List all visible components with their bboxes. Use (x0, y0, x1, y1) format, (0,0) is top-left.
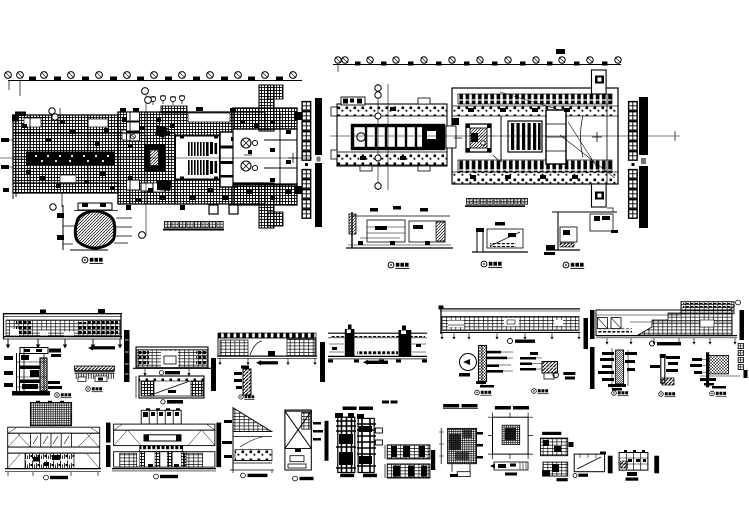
elevation E1 with tower (5, 401, 101, 480)
plan B escalator ladder (353, 124, 444, 150)
D1 name label (88, 346, 115, 351)
plan A left rooms column (127, 112, 154, 191)
plan A right bottom hatch band (233, 184, 297, 205)
vertical caption bar V1 (124, 330, 130, 382)
detail B1 label (388, 262, 409, 268)
detail B1 section (346, 206, 453, 248)
plan A top-left corner steps (12, 112, 26, 122)
detail F5 strip (490, 462, 528, 476)
plan B grid bubbles row (335, 57, 621, 63)
plan B central axis line (500, 116, 502, 162)
plan B right stair arm top (592, 70, 607, 94)
plan A left wing hatch (13, 115, 118, 199)
plan B centerline (330, 131, 680, 141)
plan A interior partition walls (13, 112, 297, 204)
plan B diagonal leaders (500, 92, 615, 178)
plan B left wing outline (331, 98, 447, 171)
elevation M1 hall section (328, 325, 427, 365)
plan A grid bubbles row (5, 72, 297, 79)
plan A dimension tick blocks (29, 77, 283, 82)
plan B tall shaft (546, 110, 566, 164)
plan B ceiling grille (508, 121, 542, 152)
detail E4 braced frame (285, 410, 323, 481)
elevation D6 (217, 333, 317, 365)
elevation D5 (136, 376, 204, 404)
detail G2 bracket (650, 354, 680, 397)
detail F4 coffer unit (488, 406, 533, 459)
detail A label (82, 257, 103, 263)
vertical caption bar V2 (211, 358, 216, 391)
plan B dimension line (333, 65, 621, 73)
right edge caption bar (738, 310, 747, 378)
detail B3 label (563, 262, 584, 268)
vertical caption bar V6 (590, 347, 595, 389)
plan A interior room dots (22, 118, 291, 202)
plan B right hall outline (446, 88, 618, 184)
plan B right margin line (606, 94, 608, 184)
plan A trees row (150, 95, 185, 105)
plan B dimension tick blocks (355, 62, 608, 66)
elevation E2 portal (112, 408, 216, 479)
detail B3 section (544, 208, 618, 255)
title A: 主馆底层大厅平面图 (163, 221, 224, 230)
plan A right section white court (233, 129, 297, 185)
caption bar right of E2 (216, 423, 221, 468)
plan B right stair arm bottom (592, 184, 607, 207)
detail F7 grid block (542, 462, 568, 481)
vertical caption bar V4 (584, 318, 589, 349)
vertical caption column 1: 福建省博物馆·主馆底层大厅 (302, 98, 322, 227)
detail B2 label (481, 261, 502, 267)
detail F3 coffer grid panel (439, 404, 483, 477)
D2 label (55, 393, 72, 398)
plan A right top hatch band (233, 108, 297, 129)
D3 label (86, 387, 103, 392)
detail F9 cabinet elevation (619, 450, 659, 481)
plan A top small hatch block (161, 106, 187, 113)
detail E5 wall strips (325, 407, 383, 478)
plan A top edge marks (120, 107, 236, 112)
detail F8 sloped panel (573, 452, 613, 478)
detail D3 ceiling strip (75, 366, 115, 382)
detail E3 skylight triangle (222, 408, 274, 478)
plan A right stair arm (259, 85, 283, 228)
plan A stage dark block (145, 125, 173, 191)
elevation D4 (133, 347, 211, 376)
plan A bottom edge column feet (126, 205, 238, 214)
plan B central feature square (454, 124, 499, 161)
plan A right court columns (241, 138, 258, 171)
detail H1 column head (459, 345, 513, 395)
plan A left edge callout marks (1, 138, 14, 192)
title B: 主馆底层大厅吊顶图 (465, 198, 527, 207)
vertical caption column 2: 福建省博物馆·主馆底层大厅 (629, 97, 648, 228)
detail F6 grid block (541, 432, 574, 456)
plan B inner band marks (360, 107, 578, 179)
plan B left gridline and bubbles (375, 84, 388, 190)
plan A right edge steps (295, 112, 302, 194)
detail F2 double grid bars (382, 401, 435, 479)
vertical caption bar V5 (590, 310, 595, 339)
plan B large leader curve (581, 115, 603, 157)
plan A vertical gridline with bubbles (139, 88, 152, 239)
detail G1 mullion section (598, 348, 637, 396)
vertical caption bar V3 (320, 342, 325, 382)
elevation M3 stepped facade (596, 300, 740, 346)
plan A middle hatch body (118, 112, 265, 204)
plan A dimension line (8, 81, 302, 97)
plan B top-left annex boxes (341, 97, 365, 105)
plan A rooms column right of hall (220, 132, 237, 187)
elevation D1 long wall (3, 309, 122, 349)
plan A horizontal centerline (0, 153, 312, 163)
detail A: curtain plan blob (57, 203, 132, 250)
detail D7 hatch post (234, 366, 255, 400)
detail G3 corner column (690, 352, 740, 396)
detail D2 wall section (4, 348, 62, 396)
detail B2 section (472, 222, 528, 252)
elevation M2 long facade (439, 306, 581, 344)
plan A solid black counter bar (26, 152, 115, 166)
caption bars between E1 and E2 (106, 423, 111, 467)
detail H2 beam joint (520, 352, 575, 394)
plan B stray tick above dim line (556, 49, 565, 54)
plan A secondary gridline with bubbles (49, 108, 62, 210)
plan A hall (white) with seat stripes (175, 135, 220, 180)
